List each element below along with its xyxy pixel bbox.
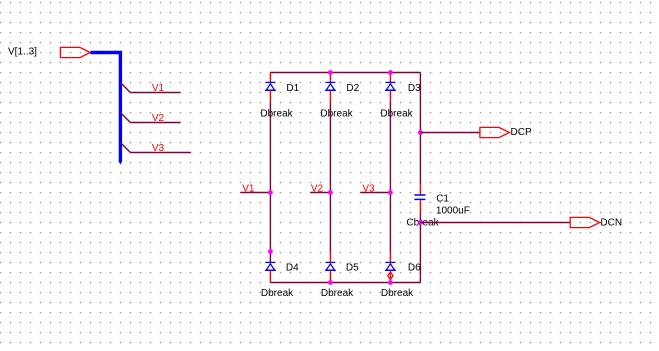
svg-text:Dbreak: Dbreak <box>380 109 413 120</box>
pin D1 cathode <box>269 73 271 83</box>
svg-text:Dbreak: Dbreak <box>381 288 414 299</box>
svg-text:Dbreak: Dbreak <box>321 288 354 299</box>
wire column 1 lower <box>269 193 271 263</box>
wire right vertical lower <box>419 214 421 283</box>
junction bottom rail col3 <box>388 280 393 285</box>
pin D6 cathode <box>389 252 391 262</box>
svg-text:V[1..3]: V[1..3] <box>8 47 37 58</box>
wire column 3 mid <box>389 102 391 192</box>
wire bottom rail <box>270 282 420 284</box>
wire column 2 mid <box>329 102 331 192</box>
pin D4 anode <box>269 270 271 282</box>
wire top rail <box>270 72 420 74</box>
wire V1 tap <box>130 92 180 94</box>
svg-text:Dbreak: Dbreak <box>261 288 294 299</box>
pin D2 cathode <box>329 73 331 83</box>
svg-text:V3: V3 <box>152 143 165 154</box>
svg-text:V1: V1 <box>242 184 255 195</box>
port DCN <box>570 217 600 227</box>
pin C1 top <box>419 184 421 194</box>
svg-text:Dbreak: Dbreak <box>260 109 293 120</box>
pin D3 anode <box>389 90 391 102</box>
wire phase V2 <box>310 192 330 194</box>
diode D5 <box>325 262 336 270</box>
svg-text:DCN: DCN <box>600 218 622 229</box>
wire column 1 mid <box>269 102 271 192</box>
junction V1 <box>268 190 273 195</box>
wire V3 tap <box>130 152 191 154</box>
junction col1 above D4 <box>268 249 273 254</box>
wire phase V1 <box>240 192 270 194</box>
svg-text:V2: V2 <box>311 184 324 195</box>
port DCP <box>480 127 510 137</box>
pin D5 anode <box>329 270 331 282</box>
wire phase V3 <box>360 192 390 194</box>
svg-text:1000uF: 1000uF <box>436 206 470 217</box>
svg-text:D1: D1 <box>286 83 299 94</box>
bus entry V2 <box>120 113 130 123</box>
pin D1 anode <box>269 90 271 102</box>
wire right vertical upper <box>419 73 421 185</box>
svg-text:D4: D4 <box>286 262 299 273</box>
diode D6 <box>385 262 396 270</box>
junction DCN <box>418 220 423 225</box>
port V[1..3] <box>60 47 90 57</box>
pin D2 anode <box>329 90 331 102</box>
svg-text:C1: C1 <box>436 193 449 204</box>
wire V2 tap <box>130 122 180 124</box>
svg-text:Dbreak: Dbreak <box>320 109 353 120</box>
wire column 2 lower <box>329 193 331 253</box>
diode D1 <box>265 82 276 90</box>
svg-text:V3: V3 <box>362 184 375 195</box>
wire DCP <box>420 132 480 134</box>
diode D3 <box>385 82 396 90</box>
wire DCN <box>420 222 570 224</box>
junction V2 <box>328 190 333 195</box>
bus taper tip <box>119 162 122 165</box>
pin D5 cathode <box>329 252 331 262</box>
bus entry V3 <box>120 143 130 153</box>
wire column 3 lower <box>389 193 391 253</box>
svg-text:D3: D3 <box>408 83 421 94</box>
junction V3 <box>388 190 393 195</box>
svg-text:V1: V1 <box>152 83 165 94</box>
svg-text:D6: D6 <box>408 262 421 273</box>
pin C1 bottom <box>419 200 421 213</box>
bus entry V1 <box>120 83 130 93</box>
capacitor C1 <box>414 195 425 199</box>
bus V[1..3] <box>90 53 120 162</box>
junction DCP <box>418 130 423 135</box>
junction bottom rail col2 <box>328 280 333 285</box>
junction top rail col2 <box>328 70 333 75</box>
svg-text:V2: V2 <box>152 113 165 124</box>
svg-text:DCP: DCP <box>511 127 532 138</box>
unconnected-pin diamond D6 <box>388 272 393 280</box>
diode D4 <box>265 262 276 270</box>
svg-text:D2: D2 <box>346 83 359 94</box>
svg-text:D5: D5 <box>346 262 359 273</box>
diode D2 <box>325 82 336 90</box>
pin D3 cathode <box>389 73 391 83</box>
pin D6 anode <box>389 270 391 282</box>
junction top rail col3 <box>388 70 393 75</box>
